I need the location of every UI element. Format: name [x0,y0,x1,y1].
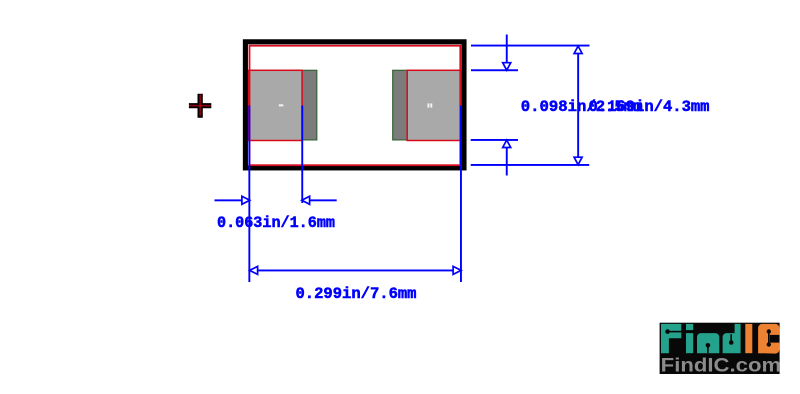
courtyard red rect [250,46,461,166]
body outline black rect [245,42,464,168]
pad P1 terminal (dark gray) [250,70,317,140]
polarity plus black [189,94,211,118]
ext line B (x=302.2 vertical) [301,106,303,204]
logo letter F teal [661,324,681,353]
dim 7.6mm right arrow [453,266,461,274]
pad P1 label (tiny white) [279,104,284,106]
dim 4.3mm double arrow [577,51,579,160]
logo letter I orange [745,324,752,353]
logo letter i teal [686,324,693,330]
pad P2 label (tiny white) [427,103,429,107]
pad P2 copper (light gray) [407,70,460,140]
ext line C (x=460.9 vertical) [460,106,462,283]
svg-text:0.169in/4.3mm: 0.169in/4.3mm [589,98,710,116]
dim 1.6mm right tail + arrow [302,199,337,201]
pad P1 copper (light gray) [249,70,303,140]
ext line 4 (y=165 horizontal) [471,164,590,166]
pad P2 terminal (dark gray) [393,70,460,140]
ext line A (x=249.3 vertical) [248,106,250,283]
dim 1.6mm left tail + arrow [215,199,249,201]
svg-text:0.299in/7.6mm: 0.299in/7.6mm [296,285,417,303]
ext line 1 (y=45.5 horizontal) [471,45,590,47]
dim 2.5mm down arrow [506,35,508,65]
FindIC logo [660,323,782,377]
ext line 2 (y=70.2 horizontal) [471,69,518,71]
dim 7.6mm line [250,270,462,272]
logo letter d teal [723,324,741,353]
dim 2.5mm up arrow [506,146,508,176]
logo letter n teal [697,333,719,353]
dim 7.6mm left arrow [250,266,258,274]
ext line 3 (y=140 horizontal) [471,139,518,141]
origin crosshair red [189,105,211,107]
logo letter C orange [758,324,779,354]
svg-text:0.063in/1.6mm: 0.063in/1.6mm [217,214,335,232]
svg-text:FindIC.com: FindIC.com [661,356,782,377]
